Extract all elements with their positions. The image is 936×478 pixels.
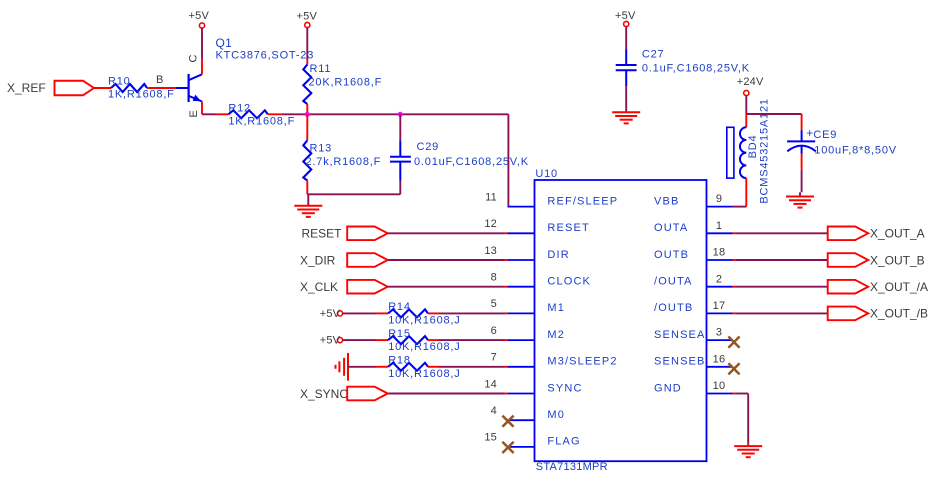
svg-text:DIR: DIR (547, 249, 569, 261)
svg-text:C: C (188, 54, 200, 63)
svg-text:X_REF: X_REF (7, 81, 46, 95)
svg-text:B: B (156, 74, 164, 86)
svg-text:12: 12 (484, 218, 497, 230)
svg-text:M1: M1 (547, 302, 565, 314)
svg-text:16: 16 (713, 353, 726, 365)
svg-text:1: 1 (716, 220, 722, 232)
svg-text:1K,R1608,F: 1K,R1608,F (228, 116, 295, 128)
svg-text:SYNC: SYNC (547, 382, 582, 394)
svg-text:M0: M0 (547, 409, 565, 421)
svg-text:REF/SLEEP: REF/SLEEP (547, 195, 618, 207)
svg-text:C29: C29 (417, 141, 440, 153)
svg-text:+5V: +5V (320, 308, 341, 320)
svg-text:100uF,8*8,50V: 100uF,8*8,50V (814, 145, 897, 157)
svg-text:18: 18 (713, 247, 726, 259)
svg-text:VBB: VBB (654, 195, 679, 207)
svg-text:+5V: +5V (615, 10, 636, 22)
svg-text:M2: M2 (547, 329, 565, 341)
svg-text:BCMS453215A121: BCMS453215A121 (759, 98, 771, 203)
svg-text:+5V: +5V (297, 10, 318, 22)
svg-text:RESET: RESET (547, 222, 589, 234)
svg-text:X_OUT_B: X_OUT_B (870, 253, 925, 267)
svg-text:E: E (188, 109, 200, 117)
svg-text:0.1uF,C1608,25V,K: 0.1uF,C1608,25V,K (642, 63, 750, 75)
svg-text:STA7131MPR: STA7131MPR (536, 461, 608, 473)
svg-text:20K,R1608,F: 20K,R1608,F (309, 76, 383, 88)
svg-text:X_OUT_/B: X_OUT_/B (870, 307, 928, 321)
svg-text:FLAG: FLAG (547, 436, 580, 448)
svg-text:OUTB: OUTB (654, 249, 689, 261)
svg-text:CLOCK: CLOCK (547, 276, 591, 288)
svg-text:/OUTA: /OUTA (654, 276, 693, 288)
svg-text:Q1: Q1 (216, 36, 233, 50)
svg-text:R13: R13 (310, 143, 333, 155)
svg-text:SENSEB: SENSEB (654, 356, 706, 368)
svg-text:R12: R12 (228, 102, 251, 114)
svg-text:1K,R1608,F: 1K,R1608,F (108, 88, 175, 100)
svg-text:15: 15 (484, 432, 497, 444)
svg-text:BD4: BD4 (747, 135, 759, 159)
svg-text:0.01uF,C1608,25V,K: 0.01uF,C1608,25V,K (414, 156, 529, 168)
svg-text:5: 5 (491, 298, 497, 310)
svg-text:3: 3 (716, 327, 722, 339)
svg-text:X_CLK: X_CLK (300, 280, 338, 294)
svg-text:7: 7 (491, 352, 497, 364)
svg-text:R10: R10 (108, 75, 131, 87)
svg-text:KTC3876,SOT-23: KTC3876,SOT-23 (216, 50, 315, 62)
svg-text:10K,R1608,J: 10K,R1608,J (388, 314, 460, 326)
svg-text:+5V: +5V (320, 335, 341, 347)
svg-text:GND: GND (654, 382, 682, 394)
svg-text:2: 2 (716, 273, 722, 285)
svg-text:10: 10 (713, 380, 726, 392)
svg-text:17: 17 (713, 300, 726, 312)
svg-text:2.7k,R1608,F: 2.7k,R1608,F (306, 156, 382, 168)
svg-text:4: 4 (491, 405, 497, 417)
svg-text:/OUTB: /OUTB (654, 302, 693, 314)
svg-text:C27: C27 (642, 48, 665, 60)
svg-text:10K,R1608,J: 10K,R1608,J (388, 368, 460, 380)
svg-text:9: 9 (716, 193, 722, 205)
svg-text:X_OUT_/A: X_OUT_/A (870, 280, 928, 294)
svg-text:8: 8 (491, 272, 497, 284)
svg-text:R14: R14 (388, 301, 411, 313)
svg-text:14: 14 (484, 378, 497, 390)
svg-text:13: 13 (484, 245, 497, 257)
svg-text:M3/SLEEP2: M3/SLEEP2 (547, 356, 617, 368)
svg-text:6: 6 (491, 325, 497, 337)
svg-text:R11: R11 (310, 63, 332, 75)
svg-text:RESET: RESET (302, 227, 343, 241)
svg-text:CE9: CE9 (813, 129, 837, 141)
svg-text:X_DIR: X_DIR (300, 253, 336, 267)
svg-text:+5V: +5V (189, 10, 210, 22)
svg-text:11: 11 (485, 191, 497, 203)
svg-text:U10: U10 (535, 168, 558, 180)
svg-text:SENSEA: SENSEA (654, 329, 706, 341)
svg-text:X_OUT_A: X_OUT_A (870, 227, 925, 241)
svg-text:+24V: +24V (737, 76, 764, 88)
svg-text:R18: R18 (388, 355, 411, 367)
svg-text:10K,R1608,J: 10K,R1608,J (388, 341, 460, 353)
svg-text:R15: R15 (388, 328, 411, 340)
svg-text:X_SYNC: X_SYNC (300, 387, 348, 401)
svg-text:OUTA: OUTA (654, 222, 688, 234)
